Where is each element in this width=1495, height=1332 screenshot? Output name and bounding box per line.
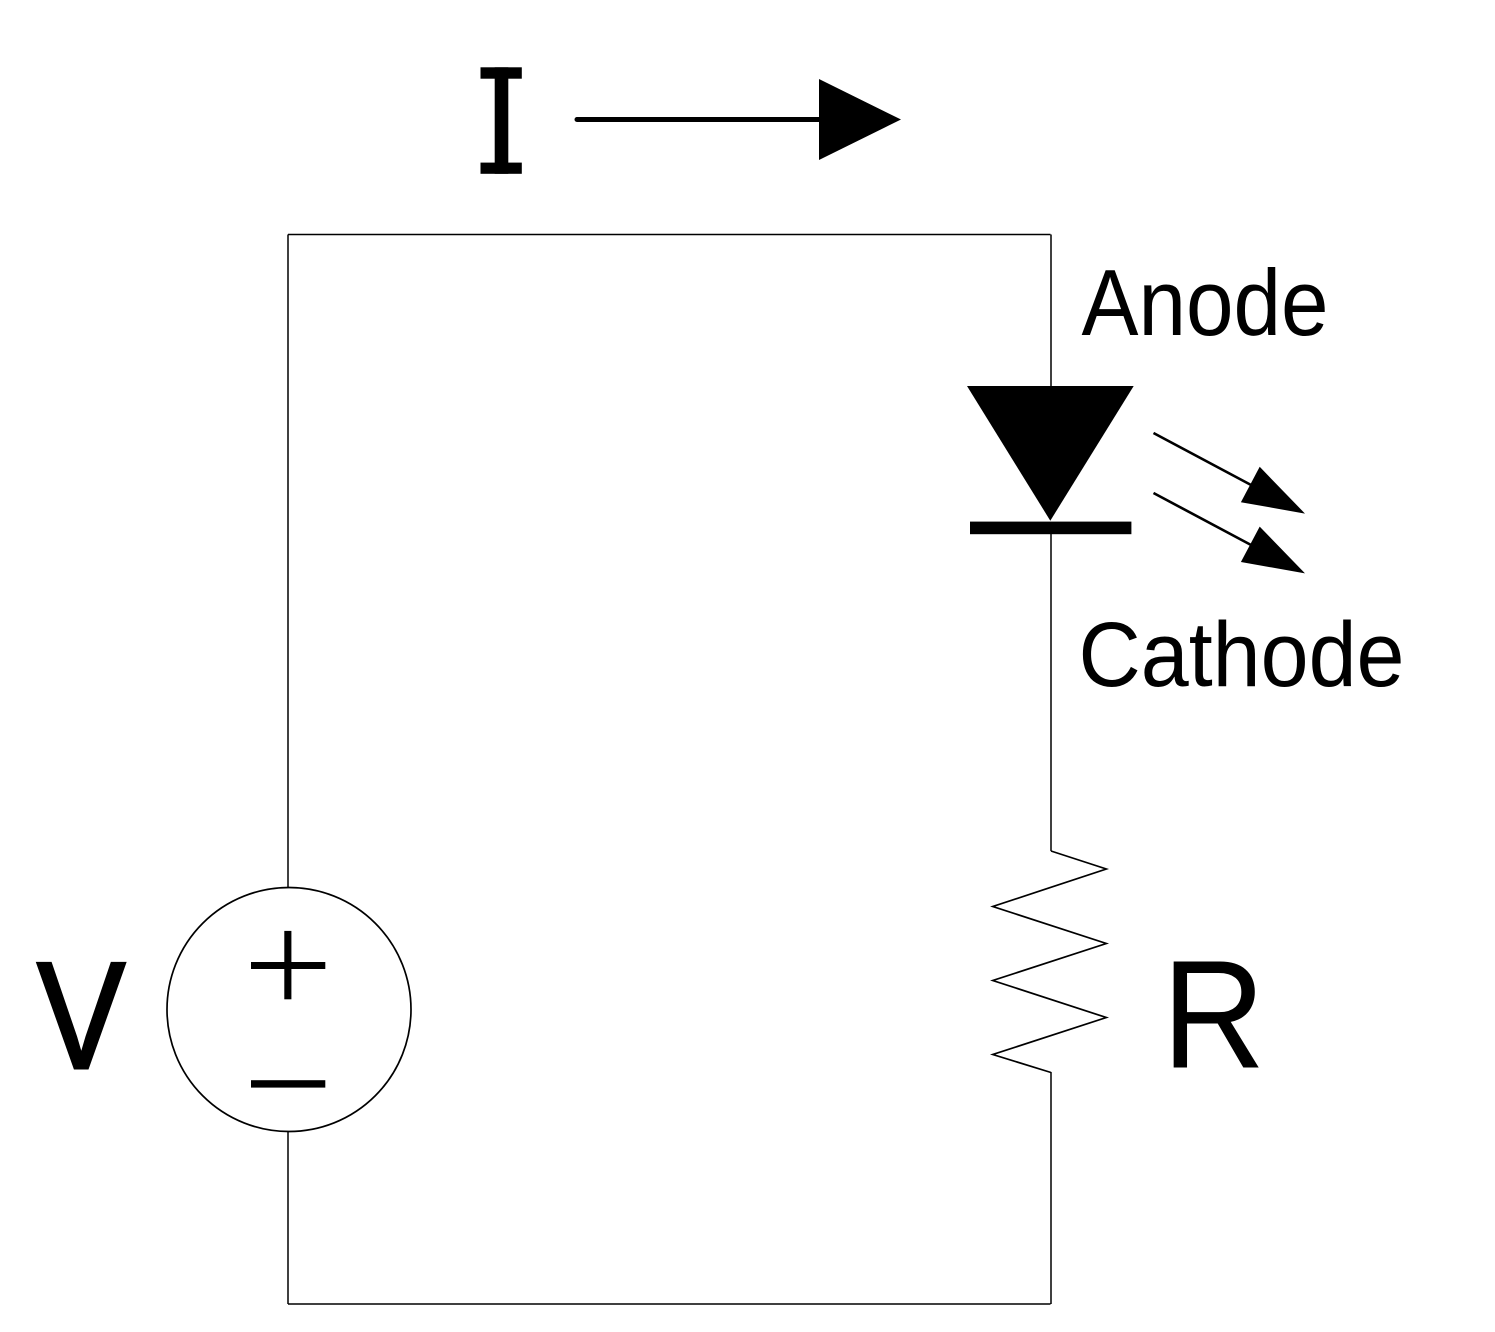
voltage source V (circle) bbox=[167, 888, 411, 1132]
LED light ray arrow 1 bbox=[1154, 433, 1306, 514]
wire bottom (source - to resistor) bbox=[288, 1303, 1051, 1305]
current arrow I bbox=[577, 79, 901, 160]
wire top (node between source + and LED anode) bbox=[288, 234, 1051, 236]
LED light ray arrow 2 bbox=[1154, 493, 1306, 573]
svg-text:R: R bbox=[1162, 928, 1265, 1101]
LED cathode bar bbox=[970, 522, 1131, 535]
label I bbox=[481, 67, 522, 174]
svg-text:Cathode: Cathode bbox=[1079, 604, 1405, 706]
wire right lower (resistor to bottom node) bbox=[1050, 1072, 1052, 1304]
wire right upper (top node to LED anode) bbox=[1050, 235, 1052, 388]
resistor R bbox=[993, 851, 1107, 1073]
minus sign bbox=[251, 1080, 325, 1087]
label V bbox=[37, 931, 125, 1101]
label R bbox=[1162, 928, 1265, 1101]
svg-text:Anode: Anode bbox=[1082, 250, 1329, 355]
svg-text:V: V bbox=[37, 931, 125, 1101]
LED triangle (anode side) bbox=[967, 386, 1134, 521]
plus sign bbox=[251, 931, 325, 999]
wire left (source to top node) bbox=[287, 235, 289, 1305]
wire right middle (LED cathode to resistor) bbox=[1050, 533, 1052, 851]
